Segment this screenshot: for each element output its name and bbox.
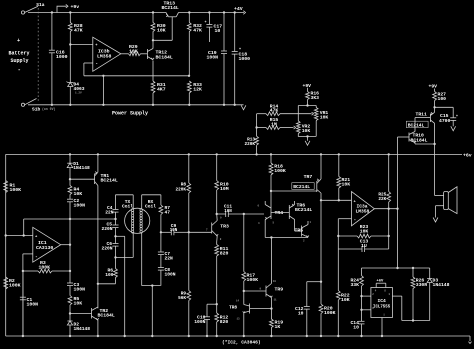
label D4 <box>74 82 85 95</box>
node IC3b plus input <box>69 43 71 45</box>
RX coil winding <box>140 209 142 234</box>
svg-text:10K: 10K <box>341 297 350 303</box>
transistor TR7 BC214L <box>317 179 321 193</box>
label R24 <box>350 278 359 289</box>
capacitor C18 <box>232 13 241 107</box>
svg-text:Coil: Coil <box>122 204 133 210</box>
resistor R12 <box>215 304 219 337</box>
svg-text:100K: 100K <box>247 277 259 283</box>
label C12 <box>295 306 304 317</box>
svg-text:10K: 10K <box>74 191 83 197</box>
wire IC3b minus stub <box>84 63 93 76</box>
wire TR11 emitter <box>434 107 436 112</box>
label R29 <box>129 44 138 54</box>
svg-text:56K: 56K <box>178 296 186 301</box>
label R21 <box>342 177 351 188</box>
svg-text:Power Supply: Power Supply <box>112 111 148 117</box>
label IC2 note <box>222 340 261 346</box>
label R31 <box>157 82 166 93</box>
node R25 rail <box>388 153 390 155</box>
resistor R20 <box>319 304 323 314</box>
resistor R27 <box>433 89 437 108</box>
svg-text:LM358: LM358 <box>97 53 112 59</box>
ground arrow C15 <box>451 126 456 131</box>
resistor R1 <box>4 181 8 193</box>
label R13 <box>244 137 255 147</box>
svg-text:1N4148: 1N4148 <box>433 282 450 288</box>
arrow +4V <box>234 6 246 14</box>
label R1 <box>10 183 22 194</box>
svg-text:BC214L: BC214L <box>293 184 310 190</box>
svg-text:BC184L: BC184L <box>98 313 115 319</box>
svg-text:10: 10 <box>273 280 277 283</box>
speaker LS1 <box>444 187 457 214</box>
svg-text:220K: 220K <box>244 142 255 147</box>
wire TR6 collector stub <box>294 201 296 205</box>
svg-text:4700: 4700 <box>439 118 450 124</box>
label R15 <box>270 117 279 127</box>
capacitor C19 <box>221 13 227 107</box>
label R23 <box>360 224 369 235</box>
wire TR9 base <box>244 290 266 292</box>
svg-text:(on 9V): (on 9V) <box>42 107 55 111</box>
svg-text:S1a: S1a <box>36 2 45 8</box>
svg-text:1N4148: 1N4148 <box>73 165 90 171</box>
label TR1 <box>101 173 118 184</box>
node R15 tap <box>255 126 257 128</box>
node C15 tap <box>433 106 435 108</box>
resistor R15 wiper <box>266 126 296 130</box>
wire TR10 base drop <box>396 137 398 269</box>
svg-text:100N: 100N <box>27 301 39 307</box>
wire IC3b output <box>121 53 129 55</box>
node IC4 pin2 <box>360 295 362 297</box>
wire RX bottom <box>142 233 161 286</box>
switch S1b <box>25 99 56 113</box>
node opamp plus tap <box>320 199 322 201</box>
svg-text:47K: 47K <box>270 108 279 114</box>
svg-text:1M: 1M <box>271 122 277 128</box>
transistor TR4 <box>265 205 271 220</box>
potentiometer VR1 <box>314 108 318 121</box>
capacitor C9 <box>171 229 189 235</box>
wire R3 feedback <box>23 270 38 272</box>
wire TX bottom jog <box>116 233 134 257</box>
resistor R4 <box>68 179 72 199</box>
battery terminal bottom <box>21 103 24 106</box>
svg-text:820: 820 <box>220 319 229 325</box>
svg-text:+: + <box>17 38 20 44</box>
svg-text:820: 820 <box>220 251 229 257</box>
label TR6 <box>295 203 312 214</box>
wire TR7 base <box>271 190 317 192</box>
svg-text:100K: 100K <box>324 310 336 316</box>
ground arrow pot <box>305 141 310 146</box>
node pot box bottom <box>306 135 308 137</box>
label TR8 <box>229 306 237 311</box>
node TR3 collector node <box>216 213 218 215</box>
svg-text:10: 10 <box>215 28 221 34</box>
search head circle <box>125 208 150 233</box>
svg-text:220K: 220K <box>175 187 186 192</box>
wire C2 branch <box>23 219 71 237</box>
label R17 <box>247 273 259 284</box>
label R4 <box>74 187 83 198</box>
wire base base <box>271 212 289 214</box>
node R28 top <box>69 11 71 13</box>
wire speaker bottom <box>436 206 444 218</box>
resistor R26 <box>411 268 415 322</box>
label IC1 <box>36 240 53 251</box>
svg-text:C9: C9 <box>171 223 177 229</box>
label R28 <box>74 23 83 34</box>
wire TR1 collector <box>97 186 99 309</box>
capacitor C8 <box>158 268 164 286</box>
transistor TR12 BC184L <box>147 49 154 60</box>
svg-text:220N: 220N <box>101 226 112 232</box>
pin TR4 <box>258 204 275 225</box>
wire TR4 bar feed <box>270 191 272 205</box>
wire TR8 base drop <box>0 0 1 1</box>
node R21 rail <box>338 153 340 155</box>
svg-text:100N: 100N <box>207 55 219 61</box>
ground arrow speaker <box>433 218 438 223</box>
svg-text:3K3: 3K3 <box>311 95 320 101</box>
op-amp IC3b <box>93 37 121 71</box>
svg-text:10K: 10K <box>157 28 166 34</box>
svg-text:IC4: IC4 <box>377 298 386 304</box>
wire TX top loop <box>116 195 134 209</box>
label power supply <box>112 111 148 117</box>
label C16 <box>56 50 68 61</box>
svg-text:1.2V: 1.2V <box>75 92 82 95</box>
wire TR11 base <box>415 118 430 132</box>
switch S1a <box>25 2 45 12</box>
svg-text:13: 13 <box>237 317 241 320</box>
label C6 <box>101 241 112 252</box>
node C6 R6 tap <box>114 256 116 258</box>
IC4 top pins <box>376 283 386 287</box>
resistor R17 <box>242 213 246 291</box>
wire IC1 plus input <box>6 235 33 237</box>
pin IC4 numbers <box>372 290 390 317</box>
label R9 <box>178 292 186 302</box>
transistor TR3 <box>212 214 218 242</box>
label C5 <box>101 221 112 232</box>
wire psu ground rail <box>28 104 244 106</box>
label R19 <box>275 320 284 331</box>
svg-text:LM358: LM358 <box>356 208 370 214</box>
wire minus column <box>22 254 24 337</box>
pin TR3 <box>206 217 222 241</box>
label C9 <box>170 223 178 233</box>
wire IC4 pin6 <box>362 296 371 310</box>
wire TR8 collector <box>244 291 273 310</box>
svg-text:TR9: TR9 <box>275 287 284 293</box>
node C17 top <box>208 11 210 13</box>
node R13 rail <box>255 153 257 155</box>
node R23 left <box>337 235 339 237</box>
svg-text:BC184L: BC184L <box>156 54 173 60</box>
wire TR10 base <box>398 136 410 138</box>
svg-text:10: 10 <box>353 325 359 331</box>
wire D1 line upper <box>69 154 71 163</box>
svg-text:BC214L: BC214L <box>162 5 179 11</box>
transistor TR6 <box>289 204 294 219</box>
label TR5 <box>295 228 304 234</box>
svg-text:47K: 47K <box>74 28 83 34</box>
wire TR2 base <box>70 305 92 314</box>
svg-text:BC214L: BC214L <box>408 122 425 128</box>
svg-text:1N4148: 1N4148 <box>74 326 91 332</box>
resistor R24 <box>360 268 364 296</box>
wire RX ground drop <box>151 286 153 338</box>
label R11 <box>220 246 229 257</box>
transistor TR2 BC184L <box>92 307 99 320</box>
label R22 <box>341 293 350 304</box>
arrow +9v <box>57 4 79 13</box>
switch link dashed <box>37 8 39 101</box>
wire IC4 pin2 <box>362 295 371 297</box>
svg-text:C11: C11 <box>224 204 232 209</box>
svg-text:10: 10 <box>298 310 304 316</box>
transistor TR10 BC184L <box>409 132 416 143</box>
svg-text:220N: 220N <box>101 246 112 252</box>
svg-text:100K: 100K <box>9 283 21 289</box>
node R8 top <box>188 153 190 155</box>
node divider R32 R33 <box>188 75 190 77</box>
node TR7 base node <box>270 190 272 192</box>
svg-text:(*IC2, CA3046): (*IC2, CA3046) <box>222 340 261 346</box>
label TR4 <box>275 210 284 216</box>
svg-text:100K: 100K <box>274 168 286 174</box>
label C19 <box>207 50 219 61</box>
wire TR4 emitter drop <box>264 220 266 238</box>
transistor TR13 BC214L <box>153 13 179 41</box>
label R18 <box>274 164 286 175</box>
wire TR7 collector <box>320 193 322 304</box>
label R2 <box>9 278 21 289</box>
resistor R25 <box>387 154 391 208</box>
label C4 <box>105 205 114 216</box>
svg-text:+6v: +6v <box>463 153 472 159</box>
svg-text:22K: 22K <box>378 197 386 202</box>
node C4 C5 tap <box>114 218 116 220</box>
capacitor C10 <box>204 317 210 337</box>
svg-text:10K: 10K <box>129 49 138 55</box>
ground arrow psu <box>241 105 246 110</box>
wire TR2 emitter <box>97 320 99 337</box>
svg-text:100N: 100N <box>74 286 86 292</box>
svg-text:10K: 10K <box>342 182 351 188</box>
label C10 <box>194 315 205 326</box>
label R12 <box>220 315 229 326</box>
ground rail end hook <box>468 336 471 344</box>
node R11 R12 C10 <box>216 303 218 305</box>
zener D4 <box>67 82 75 107</box>
pin TR8 <box>236 299 240 320</box>
label +9V mid <box>303 83 312 89</box>
label C11 <box>224 204 232 213</box>
node TR3 base node <box>188 231 190 233</box>
svg-text:+9V: +9V <box>303 83 312 89</box>
label IC3b <box>97 48 112 59</box>
wire to IC3a plus <box>321 199 352 201</box>
svg-text:22N: 22N <box>165 255 174 261</box>
label R10 <box>220 182 229 193</box>
diode D2 <box>67 314 72 338</box>
svg-text:100: 100 <box>438 96 447 102</box>
wire IC3b plus input <box>70 44 93 46</box>
svg-text:CA3130: CA3130 <box>36 245 53 251</box>
wire TR9 collector <box>270 238 272 284</box>
capacitor C6 <box>113 244 119 258</box>
svg-text:Coil: Coil <box>145 204 156 210</box>
node R32 top <box>188 11 190 13</box>
label TR12 <box>156 50 173 61</box>
label +6v <box>463 153 472 159</box>
resistor R10 <box>215 154 219 214</box>
wire pot ground <box>307 136 309 140</box>
transistor TR9 <box>266 284 272 298</box>
svg-text:S1b: S1b <box>32 106 41 112</box>
diode D1 <box>67 163 73 179</box>
label C13 <box>360 238 369 248</box>
svg-text:+6V: +6V <box>377 280 385 284</box>
timer IC4 box <box>371 288 393 318</box>
label C17 <box>214 24 223 34</box>
resistor R29 <box>129 52 148 56</box>
svg-text:-: - <box>35 255 38 260</box>
svg-text:10K: 10K <box>302 128 311 134</box>
node RX ground tap <box>151 284 153 286</box>
wire C5C6 ground jog <box>116 236 126 337</box>
resistor R7 <box>159 205 163 232</box>
resistor R2 <box>4 277 8 289</box>
wire TR4 collector stub <box>264 201 266 205</box>
node R3 left <box>22 270 24 272</box>
label R16 <box>311 91 320 101</box>
svg-text:1000: 1000 <box>239 56 251 62</box>
node TR9 col tap <box>270 236 272 238</box>
capacitor C4 <box>113 210 119 226</box>
resistor R31 <box>151 81 155 106</box>
svg-text:+4V: +4V <box>234 6 243 12</box>
wire TR6 emitter to TR5 <box>295 220 302 232</box>
resistor R9 <box>187 232 191 337</box>
wire TR12 emitter <box>152 61 154 82</box>
label VR1 <box>320 110 329 121</box>
wire IC3a out <box>374 208 397 210</box>
node pot box top <box>306 104 308 106</box>
label VR2 <box>302 123 311 134</box>
label C14 <box>350 320 359 331</box>
wire C10 jog <box>207 304 217 317</box>
diode D3 <box>427 268 432 321</box>
node IC3a out <box>388 208 390 210</box>
wire TR3 base <box>189 231 212 233</box>
wire IC3b sense <box>84 75 189 77</box>
capacitor C1 <box>20 271 26 336</box>
wire R14 <box>257 113 266 115</box>
svg-text:10K: 10K <box>320 115 329 121</box>
svg-text:10N: 10N <box>224 210 232 214</box>
svg-text:TR7: TR7 <box>304 174 313 180</box>
svg-text:-: - <box>18 66 21 73</box>
label R7 <box>165 205 171 216</box>
svg-text:12K: 12K <box>193 87 202 93</box>
TX coil winding <box>131 209 133 234</box>
wire TR7 emitter <box>320 153 322 179</box>
IC4 out wire <box>392 296 429 320</box>
label R25 <box>378 192 386 202</box>
node C2 branch <box>69 218 71 220</box>
node R17 bottom <box>243 290 245 292</box>
svg-text:22N: 22N <box>105 209 114 215</box>
label R32 <box>193 23 202 34</box>
capacitor C12 <box>304 307 310 338</box>
svg-text:TR5: TR5 <box>295 228 304 234</box>
wire sense ground drop <box>102 76 104 106</box>
label C15 <box>439 113 450 124</box>
label TR13 <box>162 1 179 11</box>
battery terminal top <box>21 11 24 14</box>
svg-text:330R: 330R <box>416 282 427 288</box>
svg-text:1U: 1U <box>361 243 367 249</box>
wire R15 <box>257 127 266 129</box>
label C1 <box>27 297 39 307</box>
capacitor C3 <box>67 245 73 296</box>
capacitor C16 <box>49 13 55 107</box>
label IC4 +6V <box>377 280 385 284</box>
label TR7 <box>304 174 313 180</box>
capacitor C13 <box>362 246 389 252</box>
svg-text:BC214L: BC214L <box>295 207 312 213</box>
svg-text:BC214L: BC214L <box>101 178 118 184</box>
label TR9 <box>275 287 284 293</box>
label RX coil <box>145 199 156 210</box>
svg-text:1K: 1K <box>275 324 281 330</box>
wire C2 branch right <box>70 218 116 220</box>
node TR10 emitter join <box>433 143 435 145</box>
node D1 top <box>69 153 71 155</box>
resistor R13 <box>255 114 259 155</box>
label TR11 <box>416 112 427 118</box>
wire TR10 emitter <box>415 143 435 144</box>
label TR7 type box <box>292 183 314 190</box>
transistor TR5 <box>302 225 309 238</box>
label C3 <box>74 282 86 292</box>
svg-text:100K: 100K <box>10 187 22 193</box>
resistor R33 <box>187 81 191 106</box>
svg-text:100K: 100K <box>39 264 51 270</box>
wire top rail right part <box>179 12 245 14</box>
node C16 top <box>51 11 53 13</box>
svg-text:-: - <box>95 62 98 67</box>
wire IC1 minus input <box>23 253 33 255</box>
svg-text:+9v: +9v <box>71 4 80 10</box>
wire C15 branch <box>435 107 454 118</box>
wire D4 line <box>69 45 71 83</box>
node R6 join <box>97 283 99 285</box>
svg-text:TR3: TR3 <box>220 224 229 230</box>
node C19 top <box>223 11 225 13</box>
label D2 <box>74 322 91 333</box>
label +9V right <box>429 84 438 90</box>
svg-text:100N: 100N <box>74 202 86 208</box>
node C18 top <box>234 11 236 13</box>
label R3 <box>39 260 51 271</box>
